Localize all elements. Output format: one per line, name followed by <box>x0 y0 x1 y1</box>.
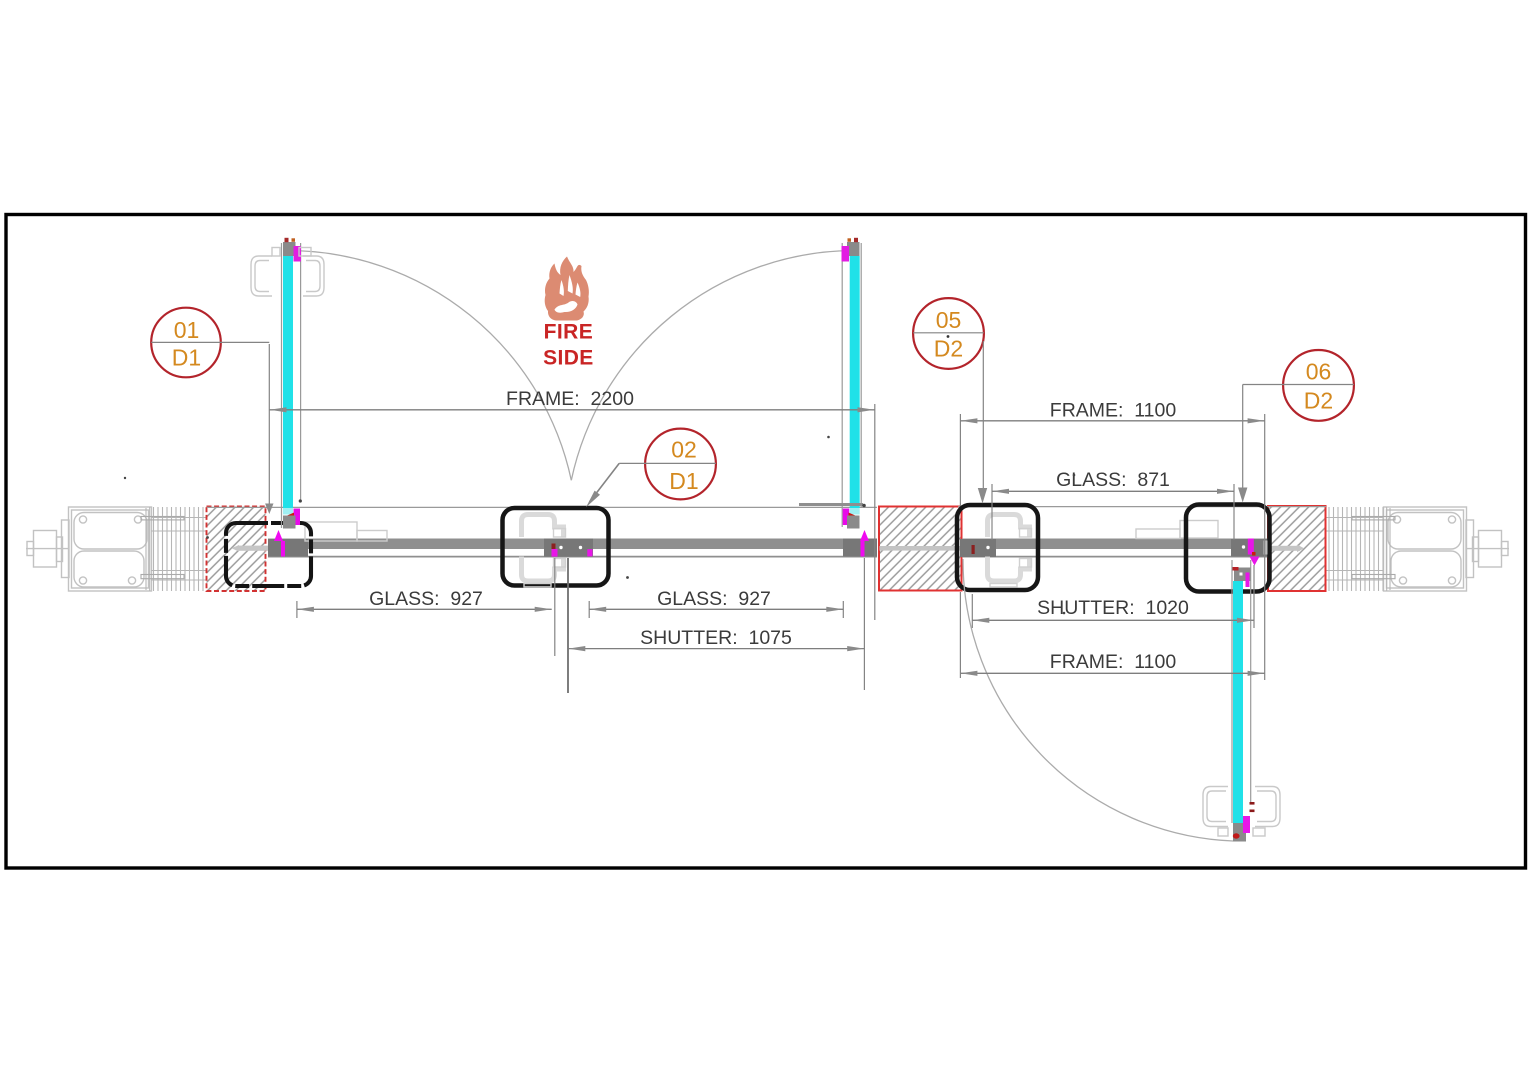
bottom fittings <box>294 509 301 526</box>
svg-text:D2: D2 <box>1304 388 1333 414</box>
anchor bolt right <box>1268 546 1300 551</box>
svg-text:D1: D1 <box>172 345 201 371</box>
glass (cyan) <box>283 256 293 508</box>
detail box 06 (single door lock jamb) <box>1186 505 1270 592</box>
frame sill line (double door) <box>268 556 877 558</box>
bottom fittings <box>843 509 850 526</box>
FIRE SIDE label <box>543 321 594 370</box>
mullion aluminium profiles (light) <box>522 515 564 582</box>
svg-text:FIRE: FIRE <box>544 321 593 344</box>
dim line FRAME 1100 bottom <box>960 672 1264 674</box>
frame profile bar (double door) <box>268 539 877 550</box>
middle wall hatch (between doors) <box>879 507 962 591</box>
top cap <box>1234 568 1251 582</box>
extension line frame right <box>874 404 876 620</box>
right wall mullion line-work <box>1325 507 1395 591</box>
dim line SHUTTER 1020 <box>972 619 1254 621</box>
svg-text:GLASS: 927: GLASS: 927 <box>657 588 771 610</box>
lock case plan (single door) <box>1136 521 1218 539</box>
fire side flame icon <box>545 257 589 321</box>
left leaf of double door <box>251 238 324 557</box>
dim line FRAME 2200 <box>270 409 875 411</box>
mullion lock fittings (magenta) <box>552 544 593 557</box>
drawing border frame <box>6 215 1526 869</box>
right wall hatch <box>1268 506 1326 591</box>
jamb block mullion center <box>544 539 593 557</box>
svg-text:SIDE: SIDE <box>543 347 594 370</box>
frame sill line (single door) <box>962 556 1269 558</box>
right leaf of double door <box>799 238 869 557</box>
shutter centre line below mullion <box>567 558 569 693</box>
single door hinge jamb fittings <box>972 545 990 554</box>
single door leaf (right) <box>1203 560 1280 842</box>
svg-text:GLASS: 927: GLASS: 927 <box>369 588 483 610</box>
svg-text:06: 06 <box>1306 359 1332 385</box>
svg-text:05: 05 <box>936 307 962 333</box>
dimension arrows <box>270 407 1265 676</box>
svg-text:FRAME: 2200: FRAME: 2200 <box>506 388 634 410</box>
bottom cap <box>1233 823 1246 842</box>
leaf edge lines <box>281 243 283 528</box>
svg-text:02: 02 <box>671 437 697 463</box>
dimension extension lines <box>269 344 1264 690</box>
dim line SHUTTER 1075 <box>568 648 864 650</box>
pull handles (plan) <box>1203 787 1280 837</box>
dimension lines <box>270 410 1265 674</box>
svg-text:FRAME: 1100: FRAME: 1100 <box>1050 651 1177 673</box>
lock case plan (double door) <box>305 522 387 541</box>
callout circle 02/D1 <box>586 429 716 508</box>
svg-text:FRAME: 1100: FRAME: 1100 <box>1050 400 1177 422</box>
svg-text:SHUTTER: 1020: SHUTTER: 1020 <box>1037 597 1189 619</box>
astragal rod <box>799 503 863 506</box>
anchor bolt left <box>232 545 240 552</box>
jamb block single door left <box>960 539 996 557</box>
callout circle 06/D2 <box>1238 350 1354 503</box>
left door closer assembly (section, light gray) <box>26 507 152 591</box>
dim line GLASS 871 <box>992 490 1234 492</box>
detail box 01 (left jamb, dash-dot) <box>226 523 311 586</box>
dim line GLASS 927 right <box>589 608 843 610</box>
door swing arc (single door) <box>963 559 1233 841</box>
detail box 05 (single door hinge jamb) <box>957 505 1038 590</box>
single door lock jamb fittings (magenta) <box>1242 539 1268 566</box>
svg-text:SHUTTER: 1075: SHUTTER: 1075 <box>640 627 792 649</box>
door swing arc (left leaf) <box>287 250 571 480</box>
frame head line (double door) <box>207 506 877 508</box>
top cap <box>283 242 296 256</box>
door swing arc (right leaf) <box>571 251 851 481</box>
jamb block double door right <box>843 539 877 557</box>
dimension texts <box>369 388 1189 673</box>
extension line frame left <box>268 344 270 504</box>
left wall hatch (fire wall) <box>207 507 272 592</box>
svg-text:01: 01 <box>174 317 200 343</box>
jamb block single door right <box>1231 539 1269 557</box>
left wall mullion line-work <box>141 507 206 591</box>
svg-text:D2: D2 <box>934 336 963 362</box>
frame profile bar (single door) <box>962 539 1269 550</box>
detail box 02 (center mullion) <box>503 508 609 586</box>
anchor rod middle <box>880 546 962 551</box>
callout circle 05/D2 <box>913 298 987 503</box>
stray CAD node dots <box>124 436 1075 615</box>
right door closer assembly (section, light gray) <box>1384 507 1510 591</box>
dim line FRAME 1100 top <box>960 420 1264 422</box>
dim line GLASS 927 left <box>297 608 552 610</box>
frame head line (single door) <box>958 506 1326 508</box>
svg-text:GLASS: 871: GLASS: 871 <box>1056 469 1170 491</box>
pull handles (plan) <box>251 248 324 297</box>
svg-text:D1: D1 <box>669 468 698 494</box>
jamb block left <box>268 539 308 557</box>
single door jamb profiles (light) <box>988 515 1030 582</box>
callout circle 01/D1 <box>151 308 273 514</box>
